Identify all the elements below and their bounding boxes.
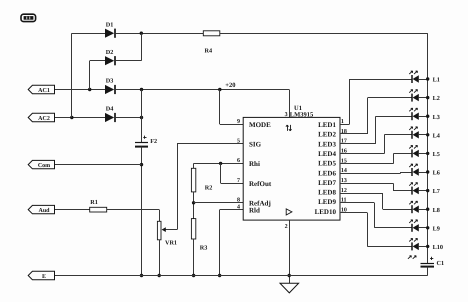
svg-text:L4: L4	[433, 132, 440, 139]
svg-text:LED6: LED6	[318, 169, 336, 177]
svg-text:L6: L6	[433, 170, 440, 177]
svg-text:5: 5	[237, 139, 240, 145]
svg-text:E: E	[42, 274, 46, 280]
svg-text:LED1: LED1	[318, 121, 336, 129]
svg-text:L9: L9	[433, 225, 440, 232]
svg-text:LED9: LED9	[318, 198, 336, 206]
svg-text:F2: F2	[150, 138, 157, 145]
svg-text:R1: R1	[90, 199, 98, 206]
svg-text:Com: Com	[38, 163, 50, 169]
svg-text:C1: C1	[437, 260, 445, 267]
svg-text:8: 8	[237, 198, 240, 204]
svg-text:LED8: LED8	[318, 189, 336, 197]
svg-text:R4: R4	[205, 48, 213, 55]
svg-text:Rld: Rld	[249, 207, 260, 215]
svg-text:L3: L3	[433, 114, 440, 121]
svg-text:L7: L7	[433, 188, 440, 195]
svg-text:AC1: AC1	[38, 88, 50, 94]
svg-text:D3: D3	[106, 77, 114, 84]
svg-text:7: 7	[237, 178, 240, 184]
svg-text:AC2: AC2	[38, 116, 50, 122]
svg-text:3: 3	[285, 112, 288, 118]
svg-text:L1: L1	[433, 77, 440, 84]
svg-text:D2: D2	[106, 49, 114, 56]
svg-text:Rhi: Rhi	[249, 160, 260, 168]
svg-text:4: 4	[237, 205, 240, 211]
svg-text:D4: D4	[106, 105, 114, 112]
svg-text:R3: R3	[200, 244, 208, 251]
svg-text:12: 12	[341, 188, 347, 194]
svg-text:RefOut: RefOut	[249, 180, 272, 188]
svg-text:L8: L8	[433, 207, 440, 214]
svg-text:R2: R2	[205, 184, 213, 191]
svg-text:LED10: LED10	[315, 208, 337, 216]
svg-text:+20: +20	[225, 82, 235, 89]
svg-text:MODE: MODE	[249, 121, 271, 129]
svg-text:LM3915: LM3915	[290, 112, 314, 119]
svg-text:9: 9	[237, 119, 240, 125]
svg-text:L5: L5	[433, 151, 440, 158]
svg-text:LED7: LED7	[318, 179, 336, 187]
svg-text:LED5: LED5	[318, 160, 336, 168]
svg-text:LED3: LED3	[318, 140, 336, 148]
svg-text:LED4: LED4	[318, 150, 336, 158]
svg-text:L10: L10	[433, 244, 443, 251]
svg-text:D1: D1	[106, 22, 114, 29]
svg-text:Aud: Aud	[38, 207, 50, 214]
svg-text:LED2: LED2	[318, 131, 336, 139]
svg-text:6: 6	[237, 158, 240, 164]
svg-text:L2: L2	[433, 95, 440, 102]
svg-text:SIG: SIG	[249, 141, 262, 149]
svg-text:2: 2	[285, 224, 288, 230]
svg-text:VR1: VR1	[165, 240, 177, 247]
